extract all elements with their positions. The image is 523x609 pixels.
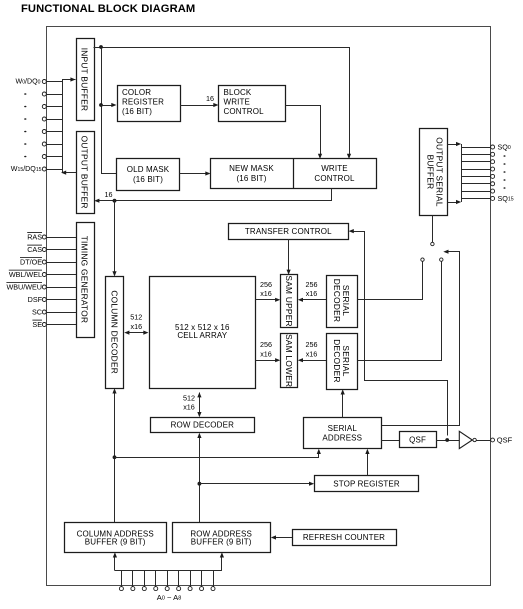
junction color register feed: [99, 103, 103, 107]
svg-text:SQ15: SQ15: [498, 194, 514, 203]
wire SQ bus: [461, 144, 463, 202]
svg-text:(16 BIT): (16 BIT): [236, 174, 266, 183]
svg-text:WRITE: WRITE: [224, 97, 251, 106]
output serial buffer box: [420, 129, 448, 216]
svg-text:WBU/WEU: WBU/WEU: [6, 283, 42, 292]
svg-text:CELL ARRAY: CELL ARRAY: [177, 331, 227, 340]
svg-text:TIMING GENERATOR: TIMING GENERATOR: [80, 236, 90, 324]
svg-text:CONTROL: CONTROL: [224, 107, 265, 116]
svg-text:SERIAL: SERIAL: [328, 424, 358, 433]
svg-text:x16: x16: [131, 322, 143, 331]
wire cell array / row decoder 512x16: [199, 393, 201, 414]
row decoder box: [151, 418, 255, 433]
svg-text:BUFFER (9 BIT): BUFFER (9 BIT): [191, 538, 252, 547]
node A6 pin: [190, 571, 192, 587]
wire write control to output buffer, 16 bits: [99, 189, 332, 201]
switch contact upper tap: [421, 258, 424, 261]
svg-text:SQ0: SQ0: [498, 143, 511, 152]
cell array box: [150, 277, 256, 389]
node SE pin: [42, 323, 46, 327]
junction row address: [198, 482, 202, 486]
svg-text:A0 ~ A8: A0 ~ A8: [157, 593, 181, 602]
node W/DQ pin 3: [42, 117, 46, 121]
serial decoder lower box: [327, 334, 358, 390]
output buffer box: [77, 132, 95, 214]
node WBL/WEL pin: [42, 273, 46, 277]
serial decoder upper box: [327, 276, 358, 328]
QSF register box: [400, 432, 437, 448]
wire address bus to row address buffer: [221, 557, 223, 571]
node SC pin: [42, 310, 46, 314]
svg-text:512: 512: [130, 312, 142, 321]
svg-text:BLOCK: BLOCK: [224, 88, 252, 97]
old mask box: [117, 159, 180, 191]
node SQ pin 2: [461, 161, 490, 163]
svg-text:DECODER: DECODER: [332, 339, 342, 382]
svg-text:W15/DQ15: W15/DQ15: [11, 165, 42, 173]
svg-text:OUTPUT BUFFER: OUTPUT BUFFER: [80, 136, 90, 209]
node SQ pin 3: [461, 169, 490, 171]
svg-text:SC: SC: [32, 308, 42, 317]
svg-text:CAS: CAS: [27, 245, 42, 254]
decorative dots between SQ pins: [503, 155, 505, 157]
wire write bus down to column decoder: [114, 201, 116, 272]
svg-text:x16: x16: [306, 349, 318, 358]
node DSF pin: [42, 298, 46, 302]
wire to serial address: [115, 453, 319, 458]
node W/DQ pin 7: [42, 167, 46, 171]
switch pole contact: [431, 242, 434, 245]
node SQ pin 1: [461, 154, 490, 156]
wire block write control to write control: [286, 106, 321, 155]
svg-text:WRITE: WRITE: [321, 164, 348, 173]
svg-text:256: 256: [260, 340, 272, 349]
node W/DQ pin 5: [42, 142, 46, 146]
svg-text:SAM LOWER: SAM LOWER: [284, 334, 294, 387]
svg-text:DECODER: DECODER: [332, 279, 342, 322]
node DT/OE pin: [42, 260, 46, 264]
node W/DQ pin 1: [42, 92, 46, 96]
svg-text:RAS: RAS: [27, 233, 42, 242]
divider new mask-write control: [293, 159, 295, 189]
wire stop register to serial address: [367, 453, 369, 476]
transfer control box: [229, 224, 349, 240]
svg-text:512: 512: [183, 393, 195, 402]
svg-text:(16 BIT): (16 BIT): [122, 107, 152, 116]
wire to color register / old mask: [102, 48, 117, 174]
svg-text:BUFFER (9 BIT): BUFFER (9 BIT): [85, 538, 146, 547]
node A4 pin: [167, 571, 169, 587]
wire output serial buffer top stub: [448, 144, 458, 146]
svg-text:COLOR: COLOR: [122, 88, 151, 97]
wire switch to serial decoder lower: [358, 262, 442, 361]
node SQ pin 4: [461, 176, 490, 178]
node W/DQ pin 2: [42, 105, 46, 109]
svg-text:16: 16: [206, 94, 214, 103]
row address buffer box: [173, 523, 271, 553]
node RAS pin: [42, 235, 46, 239]
node A3 pin: [155, 571, 157, 587]
wire output serial buffer bottom stub: [448, 202, 458, 204]
wire to QSF pin: [476, 440, 490, 442]
wire column decoder / cell array 512x16: [127, 332, 147, 334]
column decoder box: [106, 277, 124, 389]
wire color register to block write control, 16 bits: [180, 105, 214, 107]
wire transfer control to SAM upper: [288, 239, 290, 271]
svg-text:REFRESH COUNTER: REFRESH COUNTER: [303, 533, 385, 542]
svg-text:QSF: QSF: [409, 436, 426, 445]
wire QSF node to transfer control: [353, 232, 448, 436]
input buffer box: [77, 39, 95, 121]
svg-text:DSF: DSF: [28, 295, 43, 304]
svg-text:256: 256: [260, 280, 272, 289]
buffer output bubble: [473, 438, 476, 441]
wire serial address to serial decoder lower: [342, 393, 344, 417]
svg-text:ROW DECODER: ROW DECODER: [171, 421, 234, 430]
column address buffer box: [65, 523, 167, 553]
new mask / write control box: [211, 159, 377, 189]
SAM upper box: [281, 275, 298, 328]
node SQ pin 5: [461, 183, 490, 185]
wire refresh counter to row address buffer: [275, 537, 292, 539]
junction QSF: [445, 438, 449, 442]
SAM lower box: [281, 334, 298, 388]
wire output buffer to W/DQ bus: [63, 172, 77, 174]
svg-text:x16: x16: [260, 289, 272, 298]
svg-text:(16 BIT): (16 BIT): [133, 175, 163, 184]
svg-text:NEW MASK: NEW MASK: [229, 164, 274, 173]
junction input buffer out: [99, 45, 103, 49]
wire QSF to output buffer triangle: [436, 440, 459, 442]
stop register box: [315, 476, 419, 492]
svg-text:STOP REGISTER: STOP REGISTER: [333, 480, 400, 489]
svg-text:256: 256: [306, 340, 318, 349]
svg-text:SE: SE: [32, 320, 42, 329]
node W/DQ pin 6: [42, 155, 46, 159]
decorative dots between W/DQ pins: [24, 93, 26, 95]
svg-text:x16: x16: [260, 349, 272, 358]
svg-text:FUNCTIONAL BLOCK DIAGRAM: FUNCTIONAL BLOCK DIAGRAM: [21, 3, 195, 15]
node A7 pin: [201, 571, 203, 587]
wire serial address to QSF: [381, 440, 399, 442]
node SQ pin 6: [461, 191, 490, 193]
wire switch to serial decoder upper: [358, 262, 423, 300]
wire serial decoder to SAM lower 256x16: [302, 360, 326, 362]
svg-text:16: 16: [105, 190, 113, 199]
svg-text:SAM UPPER: SAM UPPER: [284, 275, 294, 326]
wire input buffer to write control: [94, 48, 350, 155]
svg-text:INPUT BUFFER: INPUT BUFFER: [80, 48, 90, 112]
wire into color register: [101, 105, 112, 107]
wire W/DQ bus to input buffer: [63, 80, 76, 173]
node A5 pin: [178, 571, 180, 587]
color register box: [118, 86, 181, 122]
wire column address buffer to column decoder: [114, 392, 116, 522]
switch contact lower tap: [440, 258, 443, 261]
node SQ15: [461, 198, 490, 200]
node CAS pin: [42, 248, 46, 252]
node WBU/WEU pin: [42, 285, 46, 289]
node A0 pin: [121, 571, 123, 587]
timing generator box: [77, 223, 95, 338]
node W/DQ pin 4: [42, 130, 46, 134]
wire cell array to SAM upper 256x16: [256, 299, 277, 301]
svg-text:x16: x16: [306, 289, 318, 298]
svg-text:ADDRESS: ADDRESS: [322, 433, 362, 442]
svg-text:W0/DQ0: W0/DQ0: [15, 78, 40, 86]
svg-text:WBL/WEL: WBL/WEL: [9, 270, 42, 279]
node QSF pin: [491, 438, 495, 442]
svg-text:TRANSFER CONTROL: TRANSFER CONTROL: [245, 227, 332, 236]
buffer U1 triangle: [459, 431, 472, 448]
svg-text:OLD MASK: OLD MASK: [127, 165, 170, 174]
svg-text:x16: x16: [183, 403, 195, 412]
serial address box: [304, 418, 382, 449]
svg-text:COLUMN DECODER: COLUMN DECODER: [110, 290, 120, 374]
refresh counter box: [293, 530, 397, 546]
wire old mask to new mask: [180, 173, 207, 175]
svg-text:BUFFER: BUFFER: [425, 155, 435, 190]
wire address bus: [115, 570, 222, 572]
svg-text:256: 256: [306, 280, 318, 289]
node A8 pin: [213, 571, 215, 587]
node A1 pin: [132, 571, 134, 587]
wire to stop register: [199, 483, 310, 485]
wire address bus to column address buffer: [114, 557, 116, 571]
svg-text:QSF: QSF: [497, 436, 513, 445]
wire row address buffer to row decoder: [199, 437, 201, 523]
wire serial decoder to SAM upper 256x16: [302, 299, 326, 301]
junction column address: [113, 455, 117, 459]
node W0/DQ0 pin: [42, 80, 46, 84]
svg-text:CONTROL: CONTROL: [314, 174, 355, 183]
wire serial address to switch select: [381, 252, 460, 426]
block write control box: [219, 86, 286, 122]
chip outer border: [47, 27, 491, 586]
svg-text:DT/OE: DT/OE: [20, 258, 42, 267]
junction write bus: [113, 199, 117, 203]
node SQ0: [461, 147, 490, 149]
node A2 pin: [144, 571, 146, 587]
wire cell array to SAM lower 256x16: [256, 360, 277, 362]
wire output serial buffer to switch pole: [432, 216, 434, 243]
svg-text:REGISTER: REGISTER: [122, 97, 164, 106]
